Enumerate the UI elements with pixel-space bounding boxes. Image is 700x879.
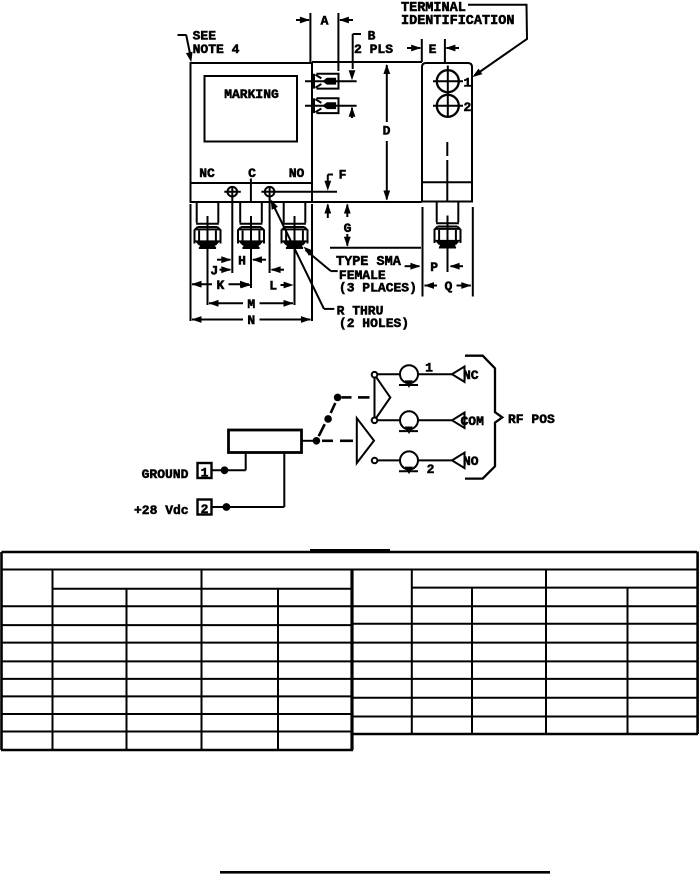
svg-text:F: F: [339, 168, 347, 183]
svg-text:MARKING: MARKING: [224, 87, 279, 102]
svg-text:E: E: [429, 42, 437, 57]
svg-text:RF POS: RF POS: [508, 412, 555, 427]
svg-text:1: 1: [201, 466, 209, 481]
svg-text:Q: Q: [444, 279, 452, 294]
svg-text:NC: NC: [199, 166, 215, 181]
svg-text:C: C: [248, 166, 256, 181]
svg-text:IDENTIFICATION: IDENTIFICATION: [401, 14, 514, 29]
svg-text:H: H: [238, 254, 246, 269]
svg-text:2 PLS: 2 PLS: [354, 42, 393, 57]
svg-text:1: 1: [425, 361, 433, 376]
svg-text:2: 2: [464, 100, 472, 115]
svg-text:K: K: [216, 278, 224, 293]
svg-text:GROUND: GROUND: [142, 467, 189, 482]
svg-text:2: 2: [427, 462, 435, 477]
svg-text:L: L: [269, 279, 277, 294]
svg-text:N: N: [247, 313, 255, 328]
svg-text:(3 PLACES): (3 PLACES): [339, 281, 417, 296]
svg-text:NOTE 4: NOTE 4: [193, 42, 240, 57]
svg-text:2: 2: [201, 502, 209, 517]
svg-text:(2 HOLES): (2 HOLES): [339, 316, 409, 331]
svg-text:A: A: [321, 14, 329, 29]
svg-text:COM: COM: [461, 414, 485, 429]
svg-text:+28 Vdc: +28 Vdc: [134, 503, 189, 518]
svg-text:P: P: [430, 260, 438, 275]
svg-text:NC: NC: [463, 368, 479, 383]
svg-text:D: D: [383, 124, 391, 139]
svg-text:1: 1: [464, 76, 472, 91]
svg-text:NO: NO: [463, 454, 479, 469]
svg-text:G: G: [344, 221, 352, 236]
svg-text:M: M: [247, 297, 255, 312]
svg-text:NO: NO: [289, 166, 305, 181]
svg-text:J: J: [210, 264, 218, 279]
